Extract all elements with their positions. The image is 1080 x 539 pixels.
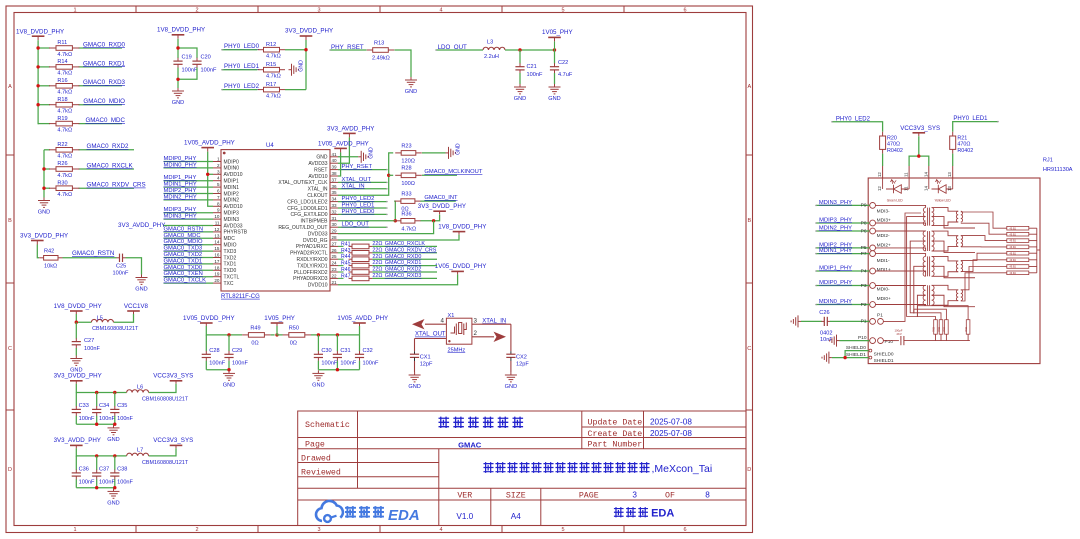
crystal X1 glyph xyxy=(451,323,467,336)
svg-text:GMAC0_TXEN: GMAC0_TXEN xyxy=(164,271,203,277)
svg-text:R0402: R0402 xyxy=(957,148,973,154)
wire R44 to GMAC0_RXD0 xyxy=(372,258,437,260)
resistor R49 0R xyxy=(242,334,248,336)
svg-text:2: 2 xyxy=(195,8,198,14)
title value company (CJK)EDA xyxy=(614,507,624,517)
ground CX2 xyxy=(510,372,512,375)
svg-text:1V05_AVDD_PHY: 1V05_AVDD_PHY xyxy=(337,315,388,322)
wire C29 bottom xyxy=(228,361,230,370)
wire C28 drop xyxy=(205,335,207,351)
resistor R42 10k xyxy=(39,257,44,259)
junction bank1 row4 xyxy=(36,103,39,106)
wire RJ1 right bus xyxy=(1036,228,1038,273)
svg-text:14: 14 xyxy=(923,186,928,191)
wire C37 drop xyxy=(96,456,98,470)
svg-text:R36: R36 xyxy=(401,211,411,217)
svg-text:TXD0: TXD0 xyxy=(224,268,237,274)
junction R36/DVDD33 xyxy=(432,219,435,222)
svg-text:P1: P1 xyxy=(861,319,867,325)
ground C25 xyxy=(141,275,143,278)
svg-text:R30: R30 xyxy=(57,180,67,186)
wire C37 bottom xyxy=(96,479,98,487)
capacitor C25 100nF xyxy=(117,257,120,259)
svg-text:C29: C29 xyxy=(232,348,242,354)
svg-text:C36: C36 xyxy=(79,466,89,472)
svg-text:CBM160808U121T: CBM160808U121T xyxy=(142,397,189,403)
svg-text:4: 4 xyxy=(439,8,442,14)
svg-text:MDIN2: MDIN2 xyxy=(224,198,240,204)
svg-text:4.7kΩ: 4.7kΩ xyxy=(57,71,72,77)
svg-text:GMAC0_RSTN: GMAC0_RSTN xyxy=(164,226,204,232)
svg-text:MDIN3_PHY: MDIN3_PHY xyxy=(164,214,197,220)
svg-text:C: C xyxy=(8,346,12,352)
svg-text:MDIP2: MDIP2 xyxy=(224,191,240,197)
svg-text:C19: C19 xyxy=(182,55,192,61)
pin 21 DVDD10 (U4 right) xyxy=(330,284,338,286)
wire R20 to RJ pin 12 xyxy=(882,154,884,166)
wire L3 to 1V05_PHY xyxy=(505,49,555,51)
svg-text:MDI2-: MDI2- xyxy=(877,233,890,239)
svg-text:R18: R18 xyxy=(57,97,67,103)
svg-text:B: B xyxy=(747,218,751,224)
pin 32 CFG_EXT/LED0 (U4 right) xyxy=(330,213,338,215)
svg-text:R16: R16 xyxy=(57,78,67,84)
svg-text:GMAC0_RXD2: GMAC0_RXD2 xyxy=(87,143,130,150)
svg-text:4.7kΩ: 4.7kΩ xyxy=(57,127,72,133)
RJ1 termination resistor bank xyxy=(1007,226,1029,230)
resistor R43 22R xyxy=(338,252,344,254)
pin 28 DVDD_RG (U4 right) xyxy=(330,239,338,241)
LED green (RJ1 internal) xyxy=(882,178,884,189)
svg-text:AVDD33: AVDD33 xyxy=(224,223,243,229)
transformer T3 windings (RJ1 internal) xyxy=(923,256,925,276)
svg-text:MDIN3_PHY: MDIN3_PHY xyxy=(819,200,852,206)
svg-text:4.7kΩ: 4.7kΩ xyxy=(57,52,72,58)
wire PHY0_LED0 U4 pin 32 xyxy=(338,213,386,215)
svg-text:C28: C28 xyxy=(209,348,219,354)
svg-text:GMAC0_RSTN: GMAC0_RSTN xyxy=(72,250,114,257)
svg-text:X1: X1 xyxy=(448,313,455,319)
wire C27 drop xyxy=(75,322,77,338)
wire MDIN1_PHY to U4 pin 5 xyxy=(164,186,214,188)
svg-text:CFG_EXT/LED0: CFG_EXT/LED0 xyxy=(291,212,328,218)
svg-text:22Ω: 22Ω xyxy=(372,241,382,247)
svg-text:A4: A4 xyxy=(511,512,521,521)
svg-text:100nF: 100nF xyxy=(79,416,95,422)
inductor L6 CBM160808U121T xyxy=(127,390,149,393)
wire L6 caps bottom bus xyxy=(76,423,115,425)
svg-text:GMAC0_RXCLK: GMAC0_RXCLK xyxy=(87,162,134,169)
wire R12 to rail xyxy=(285,49,306,51)
svg-text:C22: C22 xyxy=(558,60,568,66)
connector RJ1 HR911130A box xyxy=(868,178,1040,364)
svg-text:P8: P8 xyxy=(861,220,867,226)
svg-text:41: 41 xyxy=(332,152,338,157)
svg-text:Part Number: Part Number xyxy=(588,440,643,450)
svg-text:R13: R13 xyxy=(374,41,384,47)
wire R36 row xyxy=(394,220,395,222)
wire row R19 xyxy=(38,123,50,125)
svg-text:MDIP0_PHY: MDIP0_PHY xyxy=(164,156,197,162)
wire GMAC0_RSTN to U4 pin 12 xyxy=(164,231,214,233)
pin 19 TXCTL (U4 left) xyxy=(213,276,221,278)
svg-text:22Ω: 22Ω xyxy=(372,273,382,279)
svg-text:Yellow LED: Yellow LED xyxy=(935,199,952,203)
svg-text:MDIN1_PHY: MDIN1_PHY xyxy=(819,248,852,254)
svg-text:MDI1-: MDI1- xyxy=(877,258,890,264)
pin 23 PLLOFF/RXD2 (U4 right) xyxy=(330,271,338,273)
svg-text:TXD1: TXD1 xyxy=(224,262,237,268)
svg-text:100Ω: 100Ω xyxy=(401,181,415,187)
wire MDIP0_PHY to U4 pin 1 xyxy=(164,161,214,163)
wire GMAC0_TXEN to U4 pin 19 xyxy=(164,276,214,278)
wire row R30 xyxy=(44,187,50,189)
svg-text:GND: GND xyxy=(312,383,324,389)
svg-text:R45: R45 xyxy=(341,261,351,267)
junction C34 bottom xyxy=(95,423,98,426)
wire R28 to MCLKINOUT xyxy=(422,174,457,176)
resistor R33 0R xyxy=(395,200,401,202)
pin 36 XTAL_IN (U4 right) xyxy=(330,188,338,190)
wire L6 row xyxy=(76,384,126,393)
pin 40 AVDD33 (U4 right) xyxy=(330,162,338,164)
svg-text:GMAC0_TXD3: GMAC0_TXD3 xyxy=(164,246,203,252)
resistor R28 100R xyxy=(395,174,401,176)
svg-text:XTAL_OUT/EXT_CLK: XTAL_OUT/EXT_CLK xyxy=(278,180,328,186)
svg-text:C25: C25 xyxy=(116,264,126,270)
svg-text:100nF: 100nF xyxy=(113,271,129,277)
wire T1 primary connections xyxy=(876,205,926,207)
svg-text:MDIP0_PHY: MDIP0_PHY xyxy=(819,280,852,286)
wire PHY_RSET U4 pin 39 xyxy=(338,169,386,171)
svg-text:11: 11 xyxy=(215,221,220,226)
svg-text:12: 12 xyxy=(877,186,882,191)
wire pin41 GND xyxy=(338,156,358,158)
svg-text:2.2uH: 2.2uH xyxy=(484,54,499,60)
junction C19 top xyxy=(176,46,179,49)
svg-text:5: 5 xyxy=(217,182,220,187)
junction C35 bottom xyxy=(113,423,116,426)
wire R36 to 3V3 power xyxy=(421,215,440,221)
svg-text:MDIP1_PHY: MDIP1_PHY xyxy=(164,175,197,181)
svg-text:GND: GND xyxy=(514,96,526,102)
svg-text:GND: GND xyxy=(405,89,417,95)
pin 5 MDIN1 (U4 left) xyxy=(213,186,221,188)
inductor L3 2.2uH xyxy=(483,47,505,50)
svg-text:GMAC0_RXD1: GMAC0_RXD1 xyxy=(83,60,126,67)
resistor R36 4.7k xyxy=(395,220,401,222)
inductor L7 CBM160808U121T xyxy=(127,453,149,456)
wire C28/C29 bottom bus xyxy=(206,369,229,371)
wire T3 primary connections xyxy=(876,254,926,257)
svg-text:PHYAD0/RXD3: PHYAD0/RXD3 xyxy=(293,276,328,282)
svg-text:MDI3+: MDI3+ xyxy=(877,217,891,223)
svg-text:GND: GND xyxy=(107,437,119,443)
net port arrow X1 pin2 xyxy=(494,332,507,342)
svg-text:R15: R15 xyxy=(266,62,276,68)
pin 2 X1 xyxy=(472,336,494,338)
wire C32 bottom xyxy=(359,361,361,370)
svg-text:AVDD10: AVDD10 xyxy=(224,204,243,210)
svg-text:C26: C26 xyxy=(819,310,829,316)
ground L7 caps xyxy=(113,488,115,491)
wire C36 drop xyxy=(75,456,77,470)
svg-text:6: 6 xyxy=(683,8,686,14)
svg-text:8: 8 xyxy=(705,490,710,499)
svg-text:19: 19 xyxy=(214,272,220,277)
wire P10 row xyxy=(837,340,840,342)
pin 34 CFG_LDO1/LED2 (U4 right) xyxy=(330,201,338,203)
wire 1V05_PHY stem xyxy=(277,326,283,335)
svg-text:1V8_DVDD_PHY: 1V8_DVDD_PHY xyxy=(157,27,205,34)
pin 18 TXD0 (U4 left) xyxy=(213,269,221,271)
svg-text:P6: P6 xyxy=(861,228,867,234)
wire DVDD33 pin29 to junction xyxy=(338,221,434,234)
svg-text:3: 3 xyxy=(474,317,478,324)
pin 26 PHYAD2/RXCTL (U4 right) xyxy=(330,252,338,254)
svg-text:MDIP2_PHY: MDIP2_PHY xyxy=(164,188,197,194)
svg-text:C37: C37 xyxy=(99,466,109,472)
pin 9 MDIP3 (U4 left) xyxy=(213,212,221,214)
wire XTAL_OUT U4 pin 37 xyxy=(338,181,386,183)
svg-text:MDI0-: MDI0- xyxy=(877,287,890,293)
svg-text:PAGE: PAGE xyxy=(579,491,599,500)
svg-text:GMAC0_TXD2: GMAC0_TXD2 xyxy=(164,252,203,258)
svg-text:4: 4 xyxy=(217,176,220,181)
svg-text:VCC3V3_SYS: VCC3V3_SYS xyxy=(153,437,193,444)
svg-text:100nF: 100nF xyxy=(363,361,379,367)
svg-text:R44: R44 xyxy=(341,254,351,260)
svg-text:GND: GND xyxy=(172,100,184,106)
wire MDIN2_PHY to RJ1 P6 xyxy=(816,230,870,232)
svg-text:100nF: 100nF xyxy=(527,72,543,78)
resistor R11 4.7k xyxy=(49,47,56,49)
svg-text:3V3_DVDD_PHY: 3V3_DVDD_PHY xyxy=(20,233,68,240)
svg-text:PHYRSTB: PHYRSTB xyxy=(224,230,248,236)
svg-text:49.9Ω: 49.9Ω xyxy=(1010,227,1017,230)
ground C30 xyxy=(317,370,319,373)
wire C19/C20 top xyxy=(177,39,179,58)
wire MDIP3_PHY to U4 pin 9 xyxy=(164,212,214,214)
ground C29 xyxy=(228,370,230,373)
svg-text:Page: Page xyxy=(305,441,325,450)
wire GMAC0_TXD0 to U4 pin 18 xyxy=(164,269,214,271)
resistor R12 4.7k xyxy=(258,49,264,51)
wire L7 caps bottom bus xyxy=(76,487,115,489)
resistor R45 22R xyxy=(338,265,344,267)
wire R49-R50 xyxy=(271,334,275,336)
svg-text:3: 3 xyxy=(632,490,637,499)
svg-text:MDIN0: MDIN0 xyxy=(224,166,240,172)
svg-text:GMAC0_TXCLK: GMAC0_TXCLK xyxy=(164,278,207,284)
svg-text:GND: GND xyxy=(107,501,119,507)
svg-text:CX1: CX1 xyxy=(420,354,431,360)
svg-text:DVDD33: DVDD33 xyxy=(308,231,328,237)
RJ1 top pin stubs 12 11 14 13 xyxy=(882,166,884,178)
resistor R23 120R xyxy=(395,152,401,154)
pin 35 CLKOUT (U4 right) xyxy=(330,194,338,196)
svg-text:GMAC0_RXD3: GMAC0_RXD3 xyxy=(385,273,422,279)
junction bank2 row2 xyxy=(42,167,45,170)
svg-text:37: 37 xyxy=(332,177,338,182)
svg-text:25: 25 xyxy=(332,254,338,259)
resistor R26 4.7k xyxy=(49,168,56,170)
svg-text:SHIELD0: SHIELD0 xyxy=(874,351,894,357)
svg-text:22: 22 xyxy=(332,273,338,278)
svg-text:SHIELD1: SHIELD1 xyxy=(874,358,894,364)
wire GMAC0_MDC to U4 pin 13 xyxy=(164,237,214,239)
wire pin38 AVDD10 xyxy=(338,152,341,176)
svg-text:1: 1 xyxy=(73,527,76,533)
svg-text:R33: R33 xyxy=(401,192,411,198)
svg-text:CX2: CX2 xyxy=(516,354,527,360)
wire T1 center tap xyxy=(907,217,926,307)
capacitor CX1 12pF xyxy=(414,351,416,354)
svg-text:GMAC0_INT: GMAC0_INT xyxy=(424,195,458,201)
svg-text:VCC3V3_SYS: VCC3V3_SYS xyxy=(153,373,193,380)
junction INTB xyxy=(394,219,397,222)
junction C29 bottom xyxy=(227,368,230,371)
svg-text:R14: R14 xyxy=(57,59,67,65)
wire XTAL_IN U4 pin 36 xyxy=(338,188,386,190)
svg-text:R47: R47 xyxy=(341,273,351,279)
svg-text:C35: C35 xyxy=(117,403,127,409)
svg-text:10nF: 10nF xyxy=(820,337,833,343)
svg-text:Update Date: Update Date xyxy=(588,417,643,427)
pin 30 REG_OUT/LDO_OUT (U4 right) xyxy=(330,226,338,228)
inductor L5 CBM160808U121T xyxy=(91,319,113,322)
wire T2 secondary to choke xyxy=(932,231,975,252)
svg-text:13: 13 xyxy=(947,186,952,191)
junction bank1 row3 xyxy=(36,84,39,87)
title value project name (CJK + MeXcon_Tai) xyxy=(483,462,493,473)
wire VCC to LED pins 11/14 xyxy=(909,136,919,166)
svg-text:GMAC0_MDC: GMAC0_MDC xyxy=(164,233,201,239)
svg-text:75Ω: 75Ω xyxy=(942,327,946,332)
wire MDIN1_PHY to RJ1 P7 xyxy=(816,253,870,255)
wire MDIP2_PHY to RJ1 P5 xyxy=(816,247,870,249)
svg-text:29: 29 xyxy=(332,229,338,234)
svg-text:8: 8 xyxy=(217,201,220,206)
svg-text:2: 2 xyxy=(474,330,478,337)
svg-text:31: 31 xyxy=(332,216,338,221)
svg-text:R42: R42 xyxy=(44,249,54,255)
svg-text:,MeXcon_Tai: ,MeXcon_Tai xyxy=(652,463,713,475)
wire 3V3_AVDD_PHY pin 11 xyxy=(164,225,214,227)
svg-text:100nF: 100nF xyxy=(99,416,115,422)
svg-text:4.7kΩ: 4.7kΩ xyxy=(266,54,281,60)
svg-text:4.7kΩ: 4.7kΩ xyxy=(57,154,72,160)
svg-text:PHY0_LED0: PHY0_LED0 xyxy=(342,209,375,215)
svg-text:MDIN1_PHY: MDIN1_PHY xyxy=(164,182,197,188)
wire RJ1 secondary staircase xyxy=(961,212,1007,228)
wire MDIP3_PHY to RJ1 P8 xyxy=(816,222,870,224)
svg-text:MDIP1_PHY: MDIP1_PHY xyxy=(819,265,852,271)
wire PHY0_LED1 xyxy=(222,69,258,71)
svg-text:AVDD10: AVDD10 xyxy=(308,174,327,180)
svg-text:4.7kΩ: 4.7kΩ xyxy=(57,173,72,179)
svg-text:GMAC0_MDIO: GMAC0_MDIO xyxy=(83,98,125,105)
svg-text:17: 17 xyxy=(214,259,220,264)
wire R43 to GMAC0_RXDV_CRS xyxy=(372,252,437,254)
svg-text:75Ω: 75Ω xyxy=(964,327,968,332)
junction C30 top xyxy=(317,333,320,336)
pin 31 INTB/PMEB (U4 right) xyxy=(330,220,338,222)
wire MDIN0_PHY to U4 pin 2 xyxy=(164,167,214,169)
svg-text:49.9Ω: 49.9Ω xyxy=(1010,233,1017,236)
svg-text:R49: R49 xyxy=(250,325,260,331)
svg-text:100nF: 100nF xyxy=(340,361,356,367)
svg-text:20: 20 xyxy=(214,278,220,283)
svg-text:TXC: TXC xyxy=(224,281,234,287)
capacitor C36 100nF xyxy=(75,470,77,473)
svg-text:3: 3 xyxy=(317,527,320,533)
svg-text:TXD3: TXD3 xyxy=(224,249,237,255)
svg-text:4.7kΩ: 4.7kΩ xyxy=(266,74,281,80)
frame column ticks top/bottom xyxy=(135,6,137,13)
pin 1 MDIP0 (U4 left) xyxy=(213,161,221,163)
pin 3 X1 xyxy=(472,323,479,325)
svg-text:PLLOFF/RXD2: PLLOFF/RXD2 xyxy=(294,270,328,276)
svg-text:13: 13 xyxy=(214,233,220,238)
wire C33 drop xyxy=(75,393,77,407)
svg-text:49.9Ω: 49.9Ω xyxy=(1010,272,1017,275)
ground L6 caps xyxy=(113,425,115,428)
wire CLKOUT to R23/R28 rail xyxy=(338,153,393,195)
capacitor C30 100nF xyxy=(317,351,319,354)
junction bank1 row2 xyxy=(36,65,39,68)
svg-text:12: 12 xyxy=(214,227,220,232)
svg-text:GMAC0_RXD1: GMAC0_RXD1 xyxy=(385,260,422,266)
svg-text:34: 34 xyxy=(332,197,338,202)
svg-text:R20: R20 xyxy=(887,135,897,141)
svg-text:SIZE: SIZE xyxy=(506,491,526,500)
svg-text:EDA: EDA xyxy=(651,508,674,520)
capacitor C34 100nF xyxy=(96,406,98,409)
wire C29 drop xyxy=(228,335,230,351)
capacitor C37 100nF xyxy=(96,470,98,473)
svg-text:LDO_OUT: LDO_OUT xyxy=(342,222,370,228)
junction 1V05_PHY mid xyxy=(275,333,278,336)
capacitor C28 100nF xyxy=(205,351,207,354)
capacitor C22 4.7uF xyxy=(554,63,556,66)
wire GMAC0_TXD1 to U4 pin 17 xyxy=(164,263,214,265)
wire R45 to GMAC0_RXD1 xyxy=(372,265,437,267)
svg-text:22Ω: 22Ω xyxy=(372,267,382,273)
svg-text:P9: P9 xyxy=(861,203,867,209)
svg-text:16: 16 xyxy=(214,253,220,258)
svg-text:2025-07-08: 2025-07-08 xyxy=(650,417,692,426)
capacitor C31 100nF xyxy=(336,351,338,354)
resistor R14 4.7k xyxy=(49,66,56,68)
svg-text:D: D xyxy=(747,467,751,473)
svg-text:MDIN0_PHY: MDIN0_PHY xyxy=(164,162,197,168)
junction LED rail R12 xyxy=(304,48,307,51)
svg-text:11: 11 xyxy=(904,172,909,177)
wire R46 to GMAC0_RXD2 xyxy=(372,271,437,273)
pin 37 XTAL_OUT/EXT_CLK (U4 right) xyxy=(330,181,338,183)
wire GMAC0_TXD3 to U4 pin 15 xyxy=(164,250,214,252)
svg-text:MDIN1: MDIN1 xyxy=(224,185,240,191)
svg-text:OF: OF xyxy=(665,491,675,500)
wire R28 branch xyxy=(389,174,394,176)
wire MDIN3_PHY to RJ1 P9 xyxy=(816,204,870,206)
junction C21 top xyxy=(518,48,521,51)
svg-text:XTAL_OUT: XTAL_OUT xyxy=(415,332,446,338)
wire T2 center tap xyxy=(910,241,925,310)
wire C28 bottom xyxy=(205,361,207,370)
wire R21 to RJ pin 13 xyxy=(952,154,954,166)
